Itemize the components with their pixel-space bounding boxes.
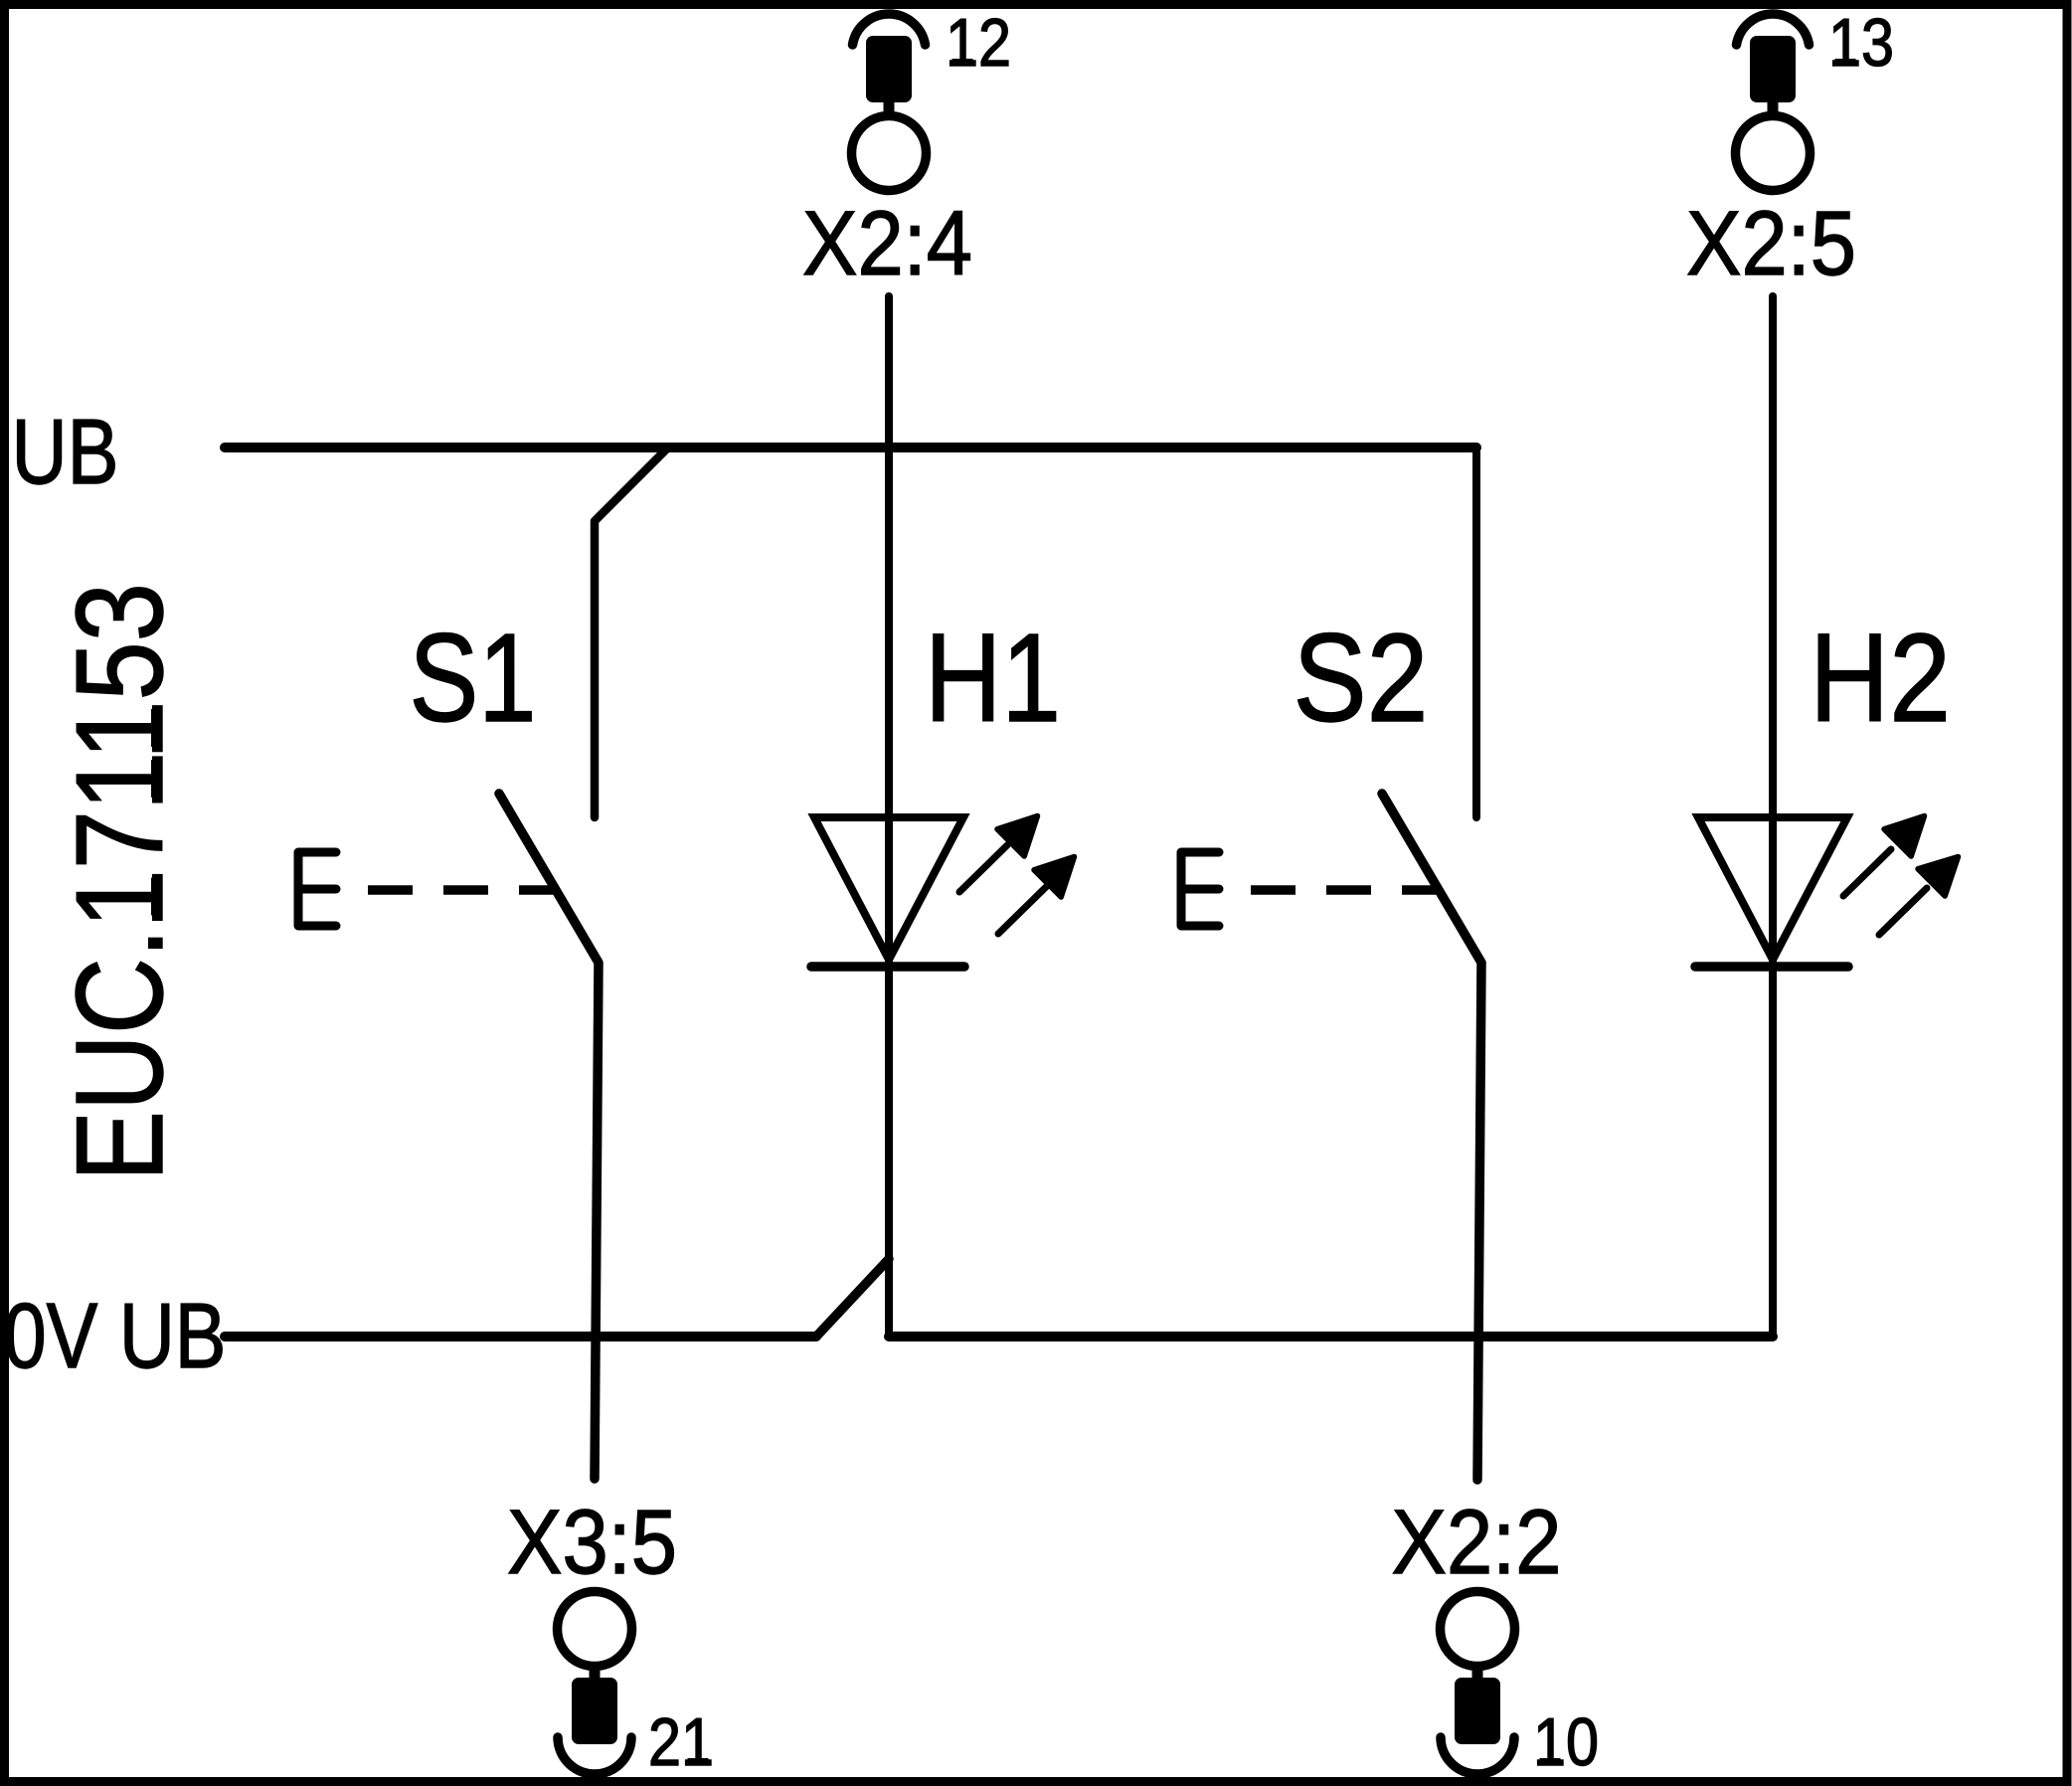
connector X3:5 pin body <box>572 1678 617 1744</box>
switch S1 blade <box>499 794 599 1479</box>
svg-text:S2: S2 <box>1294 608 1429 748</box>
connector X2:4 arc <box>853 14 926 45</box>
wire 0V UB bus left <box>225 1332 816 1341</box>
wire UB bus <box>225 443 1476 452</box>
svg-text:S1: S1 <box>410 608 537 748</box>
svg-text:13: 13 <box>1828 5 1894 81</box>
connector X2:5 stem <box>1768 99 1779 113</box>
connector X2:4 circle <box>852 116 927 191</box>
connector X2:5 arc <box>1737 14 1810 45</box>
wire 0V UB jog diagonal <box>816 1259 889 1337</box>
svg-text:X3:5: X3:5 <box>507 1492 677 1593</box>
svg-text:X2:5: X2:5 <box>1686 193 1856 294</box>
svg-text:H1: H1 <box>925 608 1061 748</box>
connector X2:2 stem <box>1472 1667 1483 1681</box>
connector X2:2 arc <box>1441 1737 1514 1774</box>
wire 0V UB bus right <box>889 1332 1773 1341</box>
switch S2 actuator E glyph <box>1181 852 1219 926</box>
LED H1 cathode bar <box>811 962 964 972</box>
connector X2:2 circle <box>1441 1592 1515 1667</box>
LED H2 cathode bar <box>1695 962 1848 972</box>
LED H1 triangle <box>814 817 963 960</box>
svg-text:X2:4: X2:4 <box>802 193 972 294</box>
connector X3:5 stem <box>590 1667 601 1681</box>
connector X3:5 arc <box>558 1737 631 1774</box>
svg-text:10: 10 <box>1533 1704 1599 1780</box>
wire H1 vertical <box>885 296 893 1337</box>
wire H2 vertical <box>1769 296 1777 1337</box>
svg-text:X2:2: X2:2 <box>1392 1492 1562 1593</box>
connector X2:4 stem <box>884 99 895 113</box>
LED H1 arrow 2 <box>998 857 1075 935</box>
wire S2 upper drop from UB <box>1472 447 1480 817</box>
switch S2 actuator dashed line <box>1251 885 1439 895</box>
switch S1 actuator E glyph <box>298 852 336 926</box>
connector X2:4 pin body <box>866 36 912 102</box>
svg-text:12: 12 <box>946 5 1011 81</box>
LED H1 arrow 1 <box>959 816 1038 893</box>
svg-text:H2: H2 <box>1810 608 1951 748</box>
connector X2:5 circle <box>1736 116 1811 191</box>
LED H2 arrow 1 <box>1843 816 1925 897</box>
connector X2:5 pin body <box>1750 36 1796 102</box>
svg-text:0V UB: 0V UB <box>4 1284 227 1387</box>
switch S1 actuator dashed line <box>368 885 556 895</box>
LED H2 triangle <box>1698 817 1847 960</box>
wire S1 jog from UB <box>595 448 667 817</box>
svg-text:EUC.171153: EUC.171153 <box>52 583 189 1181</box>
connector X2:2 pin body <box>1455 1678 1500 1744</box>
LED H2 arrow 2 <box>1879 857 1959 936</box>
svg-text:UB: UB <box>12 400 119 503</box>
svg-text:21: 21 <box>648 1704 714 1780</box>
switch S2 blade <box>1382 794 1481 1480</box>
connector X3:5 circle <box>558 1592 632 1667</box>
